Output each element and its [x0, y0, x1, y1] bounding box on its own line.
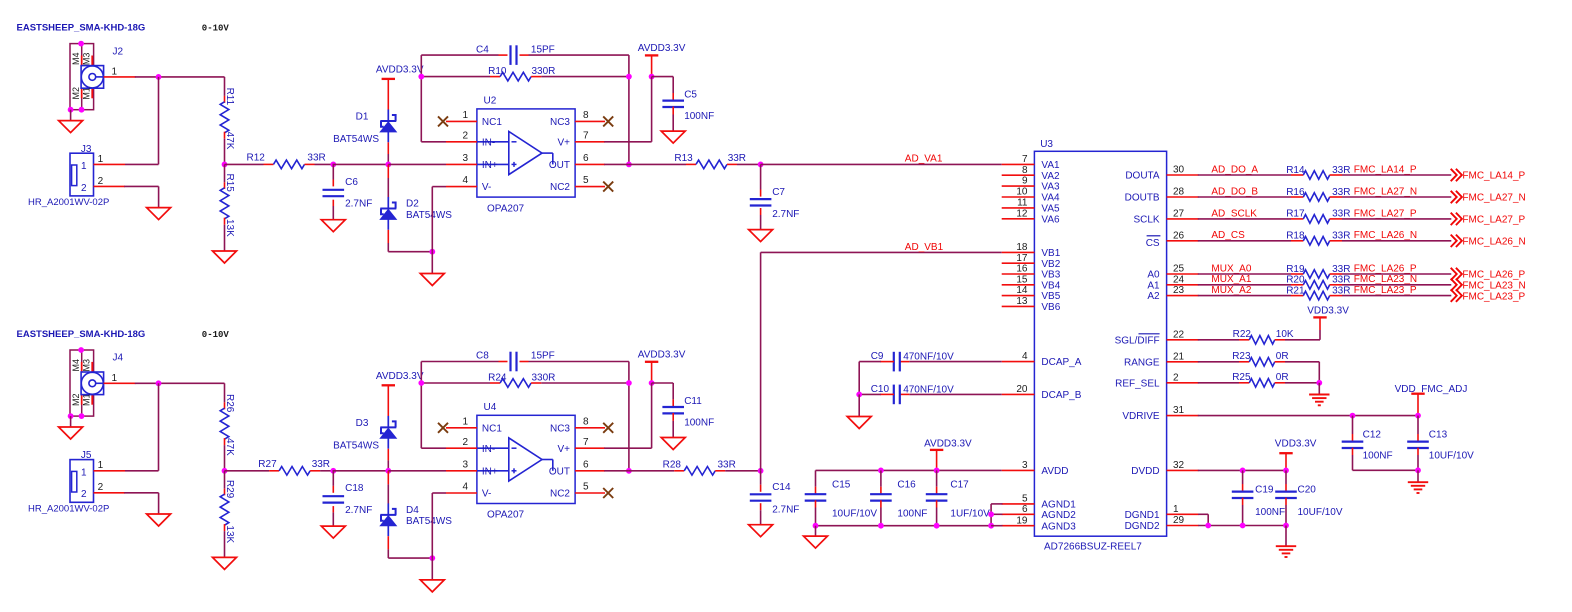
junction dot C17 top [934, 468, 940, 474]
svg-text:C19: C19 [1255, 485, 1274, 496]
pin 28 DOUTB of U3 [1167, 196, 1199, 198]
pin 15 VB4 of U3 [1002, 284, 1035, 286]
wire AVDD3.3V down to V+ node [651, 55, 653, 76]
resistor R22 10K [1198, 339, 1239, 341]
resistor R27 33R [225, 470, 270, 472]
pin 27 SCLK of U3 [1167, 218, 1199, 220]
svg-text:2: 2 [1173, 372, 1179, 383]
resistor R21 33R [1291, 295, 1303, 297]
svg-text:NC1: NC1 [482, 423, 502, 434]
wire C6 node to diode node [333, 163, 389, 165]
svg-text:AVDD3.3V: AVDD3.3V [924, 439, 972, 450]
svg-text:C6: C6 [345, 177, 358, 188]
svg-text:C16: C16 [897, 480, 916, 491]
svg-text:M3: M3 [82, 53, 92, 66]
pin 3 stub U2 [388, 163, 446, 165]
svg-text:33R: 33R [312, 459, 330, 470]
svg-text:6: 6 [583, 459, 589, 470]
junction dot feedback right [626, 74, 632, 80]
svg-text:VB5: VB5 [1041, 291, 1060, 302]
pin 8 stub U2 [575, 120, 605, 122]
svg-text:FMC_LA14_P: FMC_LA14_P [1354, 164, 1417, 175]
svg-text:SGL/DIFF: SGL/DIFF [1115, 335, 1160, 346]
svg-text:33R: 33R [1332, 231, 1350, 242]
wire AD_DO_B to R16 [1198, 196, 1291, 198]
svg-text:C20: C20 [1298, 485, 1317, 496]
svg-text:D1: D1 [356, 111, 369, 122]
svg-text:BAT54WS: BAT54WS [406, 516, 452, 527]
pin 2 REF_SEL of U3 [1167, 382, 1199, 384]
svg-text:2: 2 [81, 183, 87, 194]
ground below J4 [59, 427, 83, 439]
capacitor C16 100NF [880, 470, 882, 486]
junction dot V- ground node [429, 555, 435, 561]
capacitor C12 100NF [1352, 416, 1354, 434]
connector J5 (HR_A2001WV-02P) [70, 450, 94, 502]
svg-text:100NF: 100NF [684, 418, 714, 429]
wire V- node to op-amp pin4 [431, 493, 433, 558]
wire R19 to off-page FMC_LA26_P [1342, 273, 1451, 275]
svg-text:8: 8 [1022, 165, 1028, 176]
ground below J5 pin2 [147, 514, 171, 526]
pin 7 stub U2 V+ [575, 141, 605, 143]
svg-text:5: 5 [1022, 494, 1028, 505]
svg-text:BAT54WS: BAT54WS [333, 440, 379, 451]
pin 14 VB5 of U3 [1002, 295, 1035, 297]
ground below R29 [213, 557, 237, 569]
ground below C13 [1408, 481, 1428, 483]
pin 1 stub J3 [94, 163, 126, 165]
svg-text:VA2: VA2 [1041, 171, 1060, 182]
svg-text:FMC_LA27_P: FMC_LA27_P [1462, 215, 1525, 226]
svg-text:0R: 0R [1276, 351, 1289, 362]
wire to ground below AGND rail [815, 526, 817, 536]
svg-text:2: 2 [462, 130, 468, 141]
svg-text:33R: 33R [307, 153, 325, 164]
wire AVDD3.3V to AVDD rail [936, 450, 938, 471]
wire MUX_A2 to R21 [1198, 295, 1291, 297]
svg-text:AD_DO_B: AD_DO_B [1211, 186, 1258, 197]
capacitor C4 15PF feedback [421, 54, 498, 56]
svg-text:DCAP_B: DCAP_B [1041, 390, 1081, 401]
svg-text:NC2: NC2 [550, 489, 570, 500]
svg-text:U2: U2 [484, 95, 497, 106]
svg-text:2.7NF: 2.7NF [345, 199, 372, 210]
svg-text:33R: 33R [1332, 209, 1350, 220]
svg-text:A2: A2 [1147, 291, 1160, 302]
junction dot diode node [385, 468, 391, 474]
wire AGND rail [816, 525, 992, 527]
svg-text:NC3: NC3 [550, 117, 570, 128]
svg-text:16: 16 [1016, 264, 1028, 275]
svg-text:100NF: 100NF [897, 509, 927, 520]
ground below C15 [804, 536, 828, 548]
junction dot at C18 [330, 468, 336, 474]
op-amp U2 OPA207 [477, 95, 575, 197]
svg-text:FMC_LA23_P: FMC_LA23_P [1462, 291, 1525, 302]
junction dot top of J4 [78, 347, 84, 353]
capacitor C7 2.7NF output [760, 164, 762, 189]
wire to ground below C13 [1417, 470, 1419, 482]
wire feedback to op-amp IN- [421, 141, 446, 143]
svg-text:15: 15 [1016, 274, 1028, 285]
svg-text:HR_A2001WV-02P: HR_A2001WV-02P [28, 504, 109, 515]
capacitor C9 470NF/10V [909, 361, 1001, 363]
capacitor C15 10UF/10V [815, 470, 817, 486]
svg-text:0-10V: 0-10V [202, 330, 230, 340]
svg-text:19: 19 [1016, 515, 1028, 526]
svg-text:14: 14 [1016, 285, 1028, 296]
junction dots bottom of J2 [68, 107, 74, 113]
svg-text:3: 3 [462, 153, 468, 164]
svg-text:AGND2: AGND2 [1041, 510, 1076, 521]
pin 30 DOUTA of U3 [1167, 174, 1199, 176]
resistor R23 0R [1198, 361, 1239, 363]
svg-text:0-10V: 0-10V [202, 24, 230, 34]
svg-text:R19: R19 [1286, 264, 1305, 275]
wire J5 pin2 to ground [124, 492, 158, 494]
resistor R28 33R output [629, 470, 674, 472]
junction dot AVDD node [649, 74, 655, 80]
svg-text:15PF: 15PF [531, 351, 555, 362]
svg-text:2.7NF: 2.7NF [772, 209, 799, 220]
pin 9 VA3 of U3 [1002, 185, 1035, 187]
svg-text:33R: 33R [1332, 264, 1350, 275]
wire down to J5 pin1 [158, 383, 160, 471]
svg-text:AVDD3.3V: AVDD3.3V [638, 350, 686, 361]
wire R21 to off-page FMC_LA23_P [1342, 295, 1451, 297]
no-connect X pin1 U2 [438, 116, 448, 126]
svg-text:VB3: VB3 [1041, 270, 1060, 281]
svg-text:13K: 13K [224, 525, 235, 543]
svg-text:FMC_LA26_N: FMC_LA26_N [1462, 237, 1525, 248]
svg-text:1: 1 [81, 161, 87, 172]
wire R18 to off-page FMC_LA26_N [1342, 240, 1451, 242]
svg-text:AGND1: AGND1 [1041, 500, 1076, 511]
svg-text:7: 7 [583, 437, 589, 448]
svg-text:2: 2 [98, 482, 104, 493]
pin 1 stub J5 [94, 470, 126, 472]
pin 8 VA2 of U3 [1002, 174, 1035, 176]
svg-text:VA3: VA3 [1041, 182, 1060, 193]
junction dot C16 bottom [878, 523, 884, 529]
wire MUX_A0 to R19 [1198, 273, 1291, 275]
svg-text:10UF/10V: 10UF/10V [1429, 451, 1474, 462]
no-connect X pin5 U2 [603, 182, 613, 192]
svg-text:REF_SEL: REF_SEL [1115, 378, 1160, 389]
resistor R17 33R [1291, 218, 1303, 220]
no-connect X pin5 U4 [603, 488, 613, 498]
svg-text:32: 32 [1173, 460, 1185, 471]
svg-text:FMC_LA26_N: FMC_LA26_N [1354, 230, 1417, 241]
svg-text:100NF: 100NF [684, 111, 714, 122]
diode D1 BAT54WS [380, 110, 396, 143]
ground below C20 [1276, 545, 1296, 547]
wire to ground below C20 [1285, 526, 1287, 547]
wire J2 pin1 to divider [104, 76, 136, 78]
svg-text:C5: C5 [684, 89, 697, 100]
junction dot C17 bottom [934, 523, 940, 529]
svg-text:VDD3.3V: VDD3.3V [1307, 306, 1349, 317]
wire AD_VA1 from channel A to U3 [761, 163, 1002, 165]
svg-text:AVDD3.3V: AVDD3.3V [376, 65, 424, 76]
svg-text:C17: C17 [950, 480, 969, 491]
no-connect X pin8 U2 [603, 116, 613, 126]
no-connect X pin1 U4 [438, 423, 448, 433]
svg-text:25: 25 [1173, 264, 1185, 275]
pin 5 stub U2 [575, 186, 605, 188]
svg-text:OUT: OUT [549, 160, 570, 171]
svg-text:MUX_A1: MUX_A1 [1211, 274, 1251, 285]
svg-text:IN+: IN+ [482, 160, 498, 171]
svg-text:21: 21 [1173, 351, 1185, 362]
svg-text:RANGE: RANGE [1124, 357, 1160, 368]
svg-text:J5: J5 [81, 450, 92, 461]
svg-text:18: 18 [1016, 242, 1028, 253]
pin 32 DVDD of U3 [1167, 469, 1199, 471]
pin 3 AVDD of U3 [1002, 469, 1035, 471]
wire AVDD3.3V to D1 [387, 79, 389, 110]
svg-text:VB2: VB2 [1041, 259, 1060, 270]
wire AVDD node to op-amp V+ [651, 77, 653, 142]
pin 7 stub U4 V+ [575, 447, 605, 449]
svg-text:1: 1 [98, 460, 104, 471]
wire J2 shield to ground [70, 110, 72, 121]
junction dot C19 bottom [1240, 523, 1246, 529]
connector J2 (EASTSHEEP_SMA-KHD-18G) [70, 44, 124, 110]
svg-text:NC1: NC1 [482, 117, 502, 128]
svg-text:8: 8 [583, 110, 589, 121]
diode D2 BAT54WS [380, 197, 396, 230]
pin 18 VB1 of U3 [1002, 251, 1035, 253]
ground below R15 [213, 251, 237, 263]
svg-text:1: 1 [462, 110, 468, 121]
svg-text:DCAP_A: DCAP_A [1041, 357, 1081, 368]
svg-text:1: 1 [462, 416, 468, 427]
svg-text:3: 3 [462, 459, 468, 470]
wire C12 C13 ground rail [1353, 469, 1419, 471]
svg-text:NC2: NC2 [550, 182, 570, 193]
wire AD_VB1 from channel B to U3 [760, 252, 762, 470]
svg-text:V+: V+ [557, 444, 570, 455]
wire DGND rail [1198, 525, 1286, 527]
junction dot C12 top [1350, 413, 1356, 419]
svg-text:13: 13 [1016, 296, 1028, 307]
svg-text:1: 1 [1173, 504, 1179, 515]
wire J4 pin1 to divider [104, 382, 136, 384]
junction dot C13 bottom [1415, 467, 1421, 473]
wire AVDD3.3V down to V+ node [651, 362, 653, 383]
svg-text:9: 9 [1022, 176, 1028, 187]
junction dots bottom of J4 [68, 413, 74, 419]
svg-text:1: 1 [81, 467, 87, 478]
svg-text:10UF/10V: 10UF/10V [832, 509, 877, 520]
wire D4 anode to V- rail [387, 536, 389, 549]
svg-text:1: 1 [112, 373, 118, 384]
svg-text:EASTSHEEP_SMA-KHD-18G: EASTSHEEP_SMA-KHD-18G [17, 329, 146, 340]
svg-text:BAT54WS: BAT54WS [406, 210, 452, 221]
pin 5 AGND1 of U3 [1002, 503, 1035, 505]
pin 31 VDRIVE of U3 [1167, 415, 1199, 417]
junction dot V- ground node [429, 249, 435, 255]
capacitor C8 15PF feedback [421, 361, 498, 363]
pin 1 stub U4 [446, 427, 477, 429]
svg-text:M1: M1 [82, 393, 92, 406]
diode D4 BAT54WS [380, 503, 396, 536]
junction dot C10 left [856, 392, 862, 398]
svg-text:DGND1: DGND1 [1125, 510, 1160, 521]
svg-text:DVDD: DVDD [1131, 466, 1159, 477]
svg-text:27: 27 [1173, 209, 1185, 220]
svg-text:D2: D2 [406, 199, 419, 210]
junction dot J2 pin1 net [156, 74, 162, 80]
svg-text:33R: 33R [718, 460, 736, 471]
svg-text:1: 1 [112, 67, 118, 78]
svg-text:R17: R17 [1286, 209, 1305, 220]
svg-text:FMC_LA27_N: FMC_LA27_N [1462, 193, 1525, 204]
pin 2 stub U2 [446, 141, 477, 143]
svg-text:FMC_LA14_P: FMC_LA14_P [1462, 171, 1525, 182]
wire down to J3 pin1 [158, 77, 160, 164]
ground below R25 [1309, 394, 1329, 396]
svg-text:33R: 33R [728, 153, 746, 164]
svg-text:6: 6 [1022, 504, 1028, 515]
svg-text:FMC_LA27_P: FMC_LA27_P [1354, 208, 1417, 219]
svg-text:2.7NF: 2.7NF [772, 504, 799, 515]
wire AVDD node to op-amp V+ [651, 383, 653, 448]
svg-text:OPA207: OPA207 [487, 203, 524, 214]
junction dot OUT node [626, 162, 632, 168]
svg-text:20: 20 [1016, 384, 1028, 395]
pin 25 A0 of U3 [1167, 273, 1199, 275]
svg-text:10UF/10V: 10UF/10V [1298, 507, 1343, 518]
junction dot C13 top [1415, 413, 1421, 419]
pin 20 DCAP_B of U3 [1002, 393, 1035, 395]
pin 24 A1 of U3 [1167, 284, 1199, 286]
svg-text:R11: R11 [224, 88, 235, 106]
svg-text:C7: C7 [772, 187, 785, 198]
wire AGND3 to rail [991, 525, 1002, 527]
junction dot at C6 [330, 162, 336, 168]
svg-text:23: 23 [1173, 285, 1185, 296]
pin 4 DCAP_A of U3 [1002, 361, 1035, 363]
svg-text:VA1: VA1 [1041, 160, 1060, 171]
pin 12 VA6 of U3 [1002, 218, 1035, 220]
svg-text:C4: C4 [476, 44, 489, 55]
connector J4 (EASTSHEEP_SMA-KHD-18G) [70, 350, 124, 416]
off-page connector FMC_LA27_N [1451, 191, 1462, 203]
resistor R16 33R [1291, 196, 1303, 198]
pin 16 VB3 of U3 [1002, 273, 1035, 275]
ground below D4 [420, 580, 444, 592]
svg-text:OPA207: OPA207 [487, 510, 524, 521]
svg-text:CS: CS [1146, 238, 1160, 249]
pin 23 A2 of U3 [1167, 295, 1199, 297]
wire AD_DO_A to R14 [1198, 174, 1291, 176]
junction dot J4 pin1 net [156, 380, 162, 386]
svg-text:100NF: 100NF [1255, 507, 1285, 518]
pin 29 DGND2 of U3 [1167, 525, 1199, 527]
pin 4 stub U2 [446, 186, 477, 188]
svg-text:2: 2 [98, 176, 104, 187]
svg-text:VA4: VA4 [1041, 193, 1060, 204]
wire VDD3.3V to DVDD rail [1285, 453, 1287, 470]
svg-text:R13: R13 [674, 153, 693, 164]
capacitor C14 2.7NF output [760, 471, 762, 485]
svg-text:AVDD3.3V: AVDD3.3V [638, 43, 686, 54]
wire D2 anode to V- rail [387, 230, 389, 243]
svg-text:U4: U4 [484, 402, 497, 413]
wire D1 anode to signal [387, 142, 389, 154]
svg-text:VDRIVE: VDRIVE [1122, 411, 1160, 422]
svg-text:R22: R22 [1233, 329, 1252, 340]
pin 1 DGND1 of U3 [1167, 513, 1199, 515]
pin 6 AGND2 of U3 [1002, 513, 1035, 515]
pin 17 VB2 of U3 [1002, 262, 1035, 264]
svg-text:1: 1 [98, 154, 104, 165]
resistor R12 33R [225, 163, 264, 165]
off-page connector FMC_LA23_P [1451, 289, 1462, 301]
pin 10 VA4 of U3 [1002, 196, 1035, 198]
svg-text:10: 10 [1016, 187, 1028, 198]
wire AVDD node to C5 [652, 76, 674, 78]
svg-text:15PF: 15PF [531, 44, 555, 55]
svg-text:R21: R21 [1286, 285, 1305, 296]
wire AD_CS to R18 [1198, 240, 1291, 242]
svg-text:VDD_FMC_ADJ: VDD_FMC_ADJ [1395, 384, 1468, 395]
svg-text:47K: 47K [224, 438, 235, 456]
svg-text:C15: C15 [832, 480, 851, 491]
svg-text:29: 29 [1173, 515, 1185, 526]
svg-text:FMC_LA23_P: FMC_LA23_P [1354, 285, 1417, 296]
svg-text:26: 26 [1173, 230, 1185, 241]
svg-text:IN-: IN- [482, 444, 495, 455]
svg-text:D3: D3 [356, 418, 369, 429]
svg-text:4: 4 [462, 175, 468, 186]
resistor R25 0R [1198, 382, 1239, 384]
junction dot output node [758, 162, 764, 168]
pin 19 AGND3 of U3 [1002, 525, 1035, 527]
svg-text:330R: 330R [532, 66, 556, 77]
svg-text:MUX_A0: MUX_A0 [1211, 263, 1251, 274]
svg-text:VB6: VB6 [1041, 302, 1060, 313]
junction dot divider node [222, 162, 228, 168]
svg-text:FMC_LA26_P: FMC_LA26_P [1354, 263, 1417, 274]
ground below C11 [661, 438, 685, 450]
svg-text:2: 2 [81, 489, 87, 500]
svg-text:6: 6 [583, 153, 589, 164]
svg-text:13K: 13K [224, 219, 235, 237]
svg-text:C10: C10 [871, 384, 890, 395]
pin 8 stub U4 [575, 427, 605, 429]
svg-text:J4: J4 [113, 353, 124, 364]
svg-text:8: 8 [583, 416, 589, 427]
svg-text:R16: R16 [1286, 187, 1305, 198]
junction dot feedback left [418, 74, 424, 80]
svg-text:VB1: VB1 [1041, 248, 1060, 259]
junction dot OUT node [626, 468, 632, 474]
svg-text:10K: 10K [1276, 329, 1294, 340]
capacitor C13 10UF/10V [1417, 416, 1419, 434]
op-amp U4 OPA207 [477, 402, 575, 504]
junction dot C19 top [1240, 468, 1246, 474]
resistor R26 47K vertical [224, 383, 226, 402]
svg-text:FMC_LA23_N: FMC_LA23_N [1354, 274, 1417, 285]
svg-text:M3: M3 [82, 359, 92, 372]
resistor R11 47K vertical [224, 77, 226, 96]
no-connect X pin8 U4 [603, 423, 613, 433]
svg-text:AD_VB1: AD_VB1 [905, 242, 944, 253]
